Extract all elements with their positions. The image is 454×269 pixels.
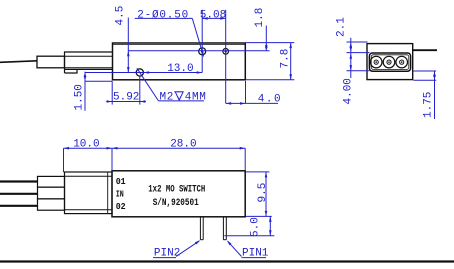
svg-text:S/N,920501: S/N,920501 xyxy=(153,197,199,209)
svg-text:1x2 MO SWITCH: 1x2 MO SWITCH xyxy=(148,183,205,195)
svg-text:4.00: 4.00 xyxy=(342,78,354,104)
svg-text:2.1: 2.1 xyxy=(336,17,348,37)
svg-text:IN: IN xyxy=(116,188,124,199)
svg-text:1.75: 1.75 xyxy=(423,92,435,118)
svg-text:01: 01 xyxy=(116,176,126,187)
svg-text:9.5: 9.5 xyxy=(257,183,269,203)
svg-text:M2: M2 xyxy=(160,92,174,104)
svg-text:2-Ø0.50: 2-Ø0.50 xyxy=(137,9,189,21)
svg-text:4MM: 4MM xyxy=(185,92,207,104)
svg-text:10.0: 10.0 xyxy=(73,138,99,150)
svg-text:1.8: 1.8 xyxy=(254,8,266,28)
svg-text:4.0: 4.0 xyxy=(258,94,282,106)
svg-text:13.0: 13.0 xyxy=(167,63,193,75)
svg-text:5.08: 5.08 xyxy=(200,9,226,21)
svg-text:5.0: 5.0 xyxy=(249,217,261,237)
svg-text:28.0: 28.0 xyxy=(170,138,196,150)
svg-text:02: 02 xyxy=(116,201,126,212)
svg-text:5.92: 5.92 xyxy=(113,92,139,104)
svg-text:7.8: 7.8 xyxy=(280,49,292,69)
svg-text:4.5: 4.5 xyxy=(115,6,127,26)
svg-text:1.50: 1.50 xyxy=(74,84,86,110)
